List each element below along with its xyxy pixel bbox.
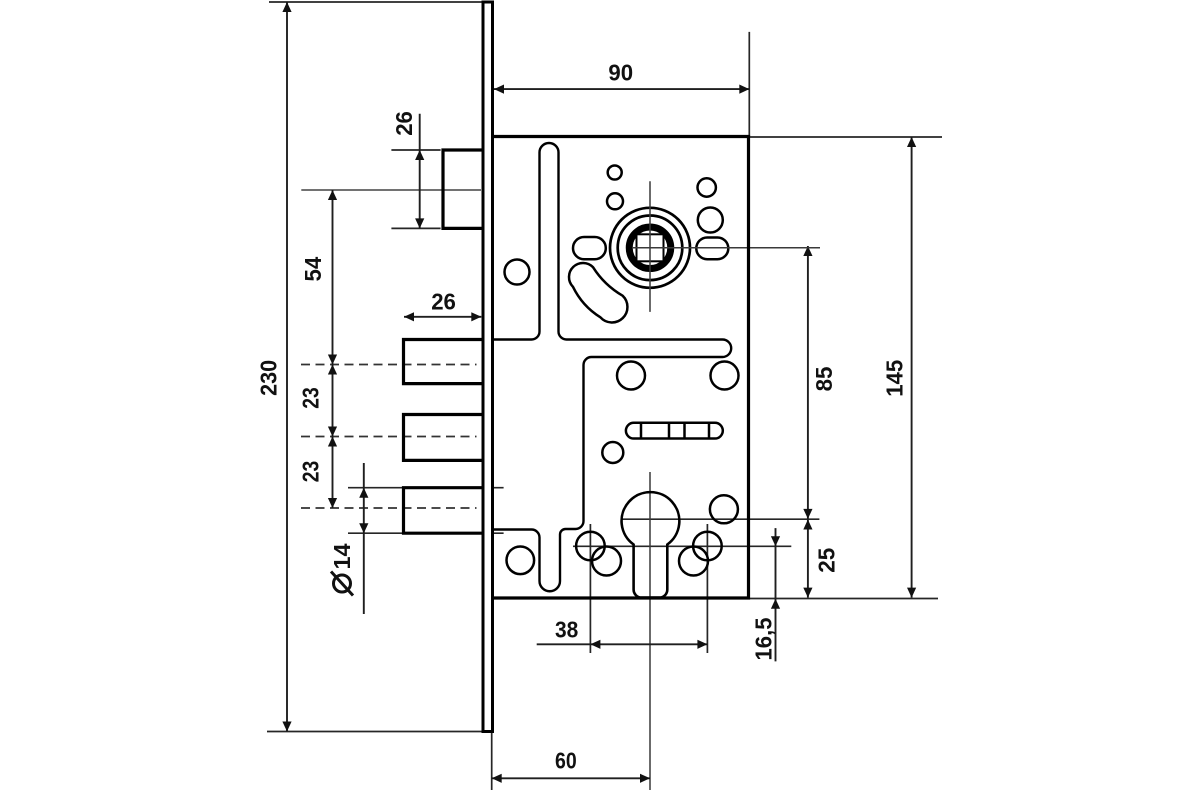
clover hole left bottom xyxy=(592,547,621,576)
svg-text:145: 145 xyxy=(882,360,908,397)
dashed centerline bolt2 xyxy=(301,364,477,366)
dimension 38 xyxy=(537,616,708,649)
segmented slot xyxy=(626,423,723,439)
svg-text:54: 54 xyxy=(300,257,326,282)
extension line 85/25 boundary xyxy=(621,518,819,520)
euro cylinder hole xyxy=(622,492,680,597)
dashed centerline bolt3 xyxy=(301,436,477,438)
hole right 2 xyxy=(698,208,723,233)
extension line faceplate bottom (60) xyxy=(491,732,493,790)
extension line deadbolt top xyxy=(348,487,504,489)
svg-text:60: 60 xyxy=(555,747,577,773)
cylinder centerline xyxy=(649,472,651,790)
extension line deadbolt bottom xyxy=(348,532,504,534)
dimension 26 latch height xyxy=(391,111,424,228)
pill slot left of hub xyxy=(573,237,606,259)
inner contour plate outline xyxy=(493,143,732,591)
svg-text:25: 25 xyxy=(813,548,839,573)
dashed centerline deadbolt xyxy=(301,507,477,509)
dimension 60 xyxy=(492,747,650,783)
lock body outline xyxy=(493,137,749,599)
extension line 90 right xyxy=(748,32,750,137)
spindle hub thick ring xyxy=(629,227,671,268)
dimension 25 xyxy=(803,520,839,598)
dimension dia 14 xyxy=(329,463,368,614)
bolt 3 xyxy=(404,415,484,461)
extension line clover centers (16,5) xyxy=(573,545,791,547)
clover hole right bottom xyxy=(679,547,708,576)
svg-text:85: 85 xyxy=(811,366,837,391)
dimension 26 bolt width xyxy=(404,289,481,322)
hub vertical centerline xyxy=(649,181,651,312)
deadbolt xyxy=(404,488,484,534)
latch centerline xyxy=(301,189,481,191)
svg-text:90: 90 xyxy=(608,60,633,86)
circle below contour right xyxy=(711,362,739,390)
bolt 2 xyxy=(404,340,484,384)
dimension 54 and 23/23 column xyxy=(297,190,337,508)
small hole right 1 xyxy=(698,178,716,196)
clover hole right top xyxy=(693,532,722,561)
dimension 145 xyxy=(882,137,917,598)
small hole top 2 xyxy=(607,193,623,209)
svg-text:38: 38 xyxy=(555,616,578,642)
extension line body top right (145) xyxy=(750,136,942,138)
extension line 26 latch bottom xyxy=(391,227,440,229)
svg-text:23: 23 xyxy=(297,387,323,409)
small hole top 1 xyxy=(608,166,622,180)
extension line top 230 xyxy=(269,1,482,3)
bean shaped slot xyxy=(569,263,627,322)
spindle hub middle circle xyxy=(618,216,683,281)
svg-text:14: 14 xyxy=(329,543,355,569)
circle below contour left xyxy=(617,362,645,390)
extension line body bottom right xyxy=(749,598,939,600)
spindle hub outer circle xyxy=(610,208,690,288)
spindle square hole xyxy=(637,234,664,261)
faceplate xyxy=(483,2,493,732)
svg-text:230: 230 xyxy=(256,360,282,396)
extension line 38 left xyxy=(589,524,591,653)
svg-text:26: 26 xyxy=(391,111,417,136)
circle bottom left xyxy=(507,547,535,575)
circle right above cylinder xyxy=(710,495,738,523)
svg-text:26: 26 xyxy=(431,289,456,315)
hub horizontal centerline (85 extension) xyxy=(632,247,820,249)
extension line 26 latch top xyxy=(391,149,440,151)
dimension 230 xyxy=(256,2,292,732)
extension line bottom 230 xyxy=(267,731,490,733)
clover hole left top xyxy=(576,532,605,561)
pill slot right of hub xyxy=(696,238,728,260)
dimension 85 xyxy=(803,246,837,519)
small circle mid xyxy=(602,442,623,463)
svg-text:16,5: 16,5 xyxy=(751,617,777,660)
dimension 16,5 xyxy=(751,528,781,661)
latch bolt xyxy=(443,150,483,228)
svg-text:23: 23 xyxy=(297,461,323,483)
hole circle upper-left xyxy=(505,260,530,285)
dimension 90 xyxy=(494,60,749,94)
extension line 38 right xyxy=(706,524,708,653)
